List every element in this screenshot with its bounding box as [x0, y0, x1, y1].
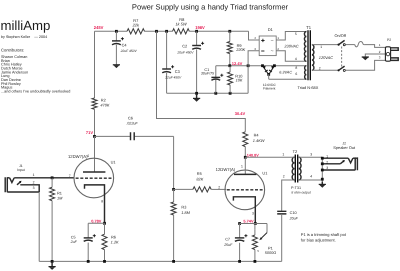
wire R4 to V1b plate node: [244, 147, 246, 158]
svg-text:3: 3: [252, 212, 254, 216]
svg-text:30.4V: 30.4V: [235, 111, 246, 116]
resistor R3: [171, 202, 176, 215]
ground symbol at AC plug: [362, 56, 369, 58]
wire cathode node to C5: [88, 222, 104, 224]
wire J1 sleeve down to ground rail: [38, 192, 40, 261]
wire fuse to plug pin1: [364, 45, 385, 48]
wire R2 to V1a plate node: [94, 109, 96, 136]
svg-text:470K: 470K: [100, 103, 109, 108]
fuse bump: [355, 42, 364, 47]
AC plug P2 body: [385, 47, 390, 61]
node V1b cathode junction dots: [254, 222, 257, 225]
wire filament node stub: [268, 74, 270, 79]
svg-text:4: 4: [310, 175, 312, 179]
svg-text:8: 8: [101, 200, 103, 204]
AC plug prong bottom: [391, 58, 399, 61]
input jack J1 body: [5, 177, 7, 192]
svg-text:22k: 22k: [132, 22, 140, 27]
svg-text:C2: C2: [182, 44, 187, 49]
wire plate node into tube V1a plate: [94, 136, 96, 172]
V1a plate bar: [83, 171, 105, 173]
node C6/R3/R5 junction: [172, 188, 175, 191]
svg-text:1.2K: 1.2K: [111, 239, 119, 244]
switch S1b bottom pole: [338, 69, 340, 71]
switch S1a top pole: [338, 44, 340, 46]
wire B+ rail down to R2: [94, 31, 96, 98]
svg-text:by Stephen Keller — 2004: by Stephen Keller — 2004: [1, 35, 47, 39]
wire T1 pin 6 lead: [269, 78, 307, 80]
signal ground rail: [39, 260, 282, 262]
svg-text:1k 5W: 1k 5W: [175, 21, 188, 26]
J2 ring contact arrow: [322, 163, 340, 165]
svg-text:2: 2: [283, 175, 285, 179]
resistor R1: [50, 187, 55, 201]
resistor R4: [243, 132, 248, 147]
svg-text:3: 3: [310, 153, 312, 157]
svg-text:D1: D1: [268, 27, 274, 32]
filament rectifier diode DB: [269, 66, 274, 75]
wire V1b plate node to T2 pin1: [245, 156, 294, 158]
capacitor C3 branch wire: [166, 31, 168, 93]
wire bridge + output to B+ rail: [249, 31, 260, 40]
svg-text:220K: 220K: [235, 47, 245, 52]
svg-text:P1: P1: [268, 245, 273, 250]
svg-text:P2: P2: [387, 38, 391, 42]
AC plug prong top: [391, 48, 399, 51]
wire C10 bottom to ground rail: [281, 214, 283, 262]
ground symbol below C2: [196, 93, 198, 98]
svg-text:~: ~: [271, 48, 274, 54]
wire R1 top lead: [51, 178, 53, 187]
wire T1 pin1 to switch: [312, 44, 338, 46]
svg-text:1: 1: [320, 45, 322, 49]
svg-text:C3: C3: [175, 69, 180, 74]
node V1b plate junction: [244, 156, 247, 159]
wire switch to plug pin3: [345, 60, 385, 70]
wire R6 top lead: [104, 223, 106, 234]
capacitor C10: [277, 211, 286, 214]
svg-text:140.8V: 140.8V: [247, 153, 260, 157]
svg-text:T1: T1: [306, 25, 312, 30]
wire R3 bottom to ground rail: [173, 215, 175, 261]
capacitor C6 coupling: [95, 135, 174, 137]
svg-text:120VAC: 120VAC: [319, 55, 333, 60]
capacitor C1: [211, 76, 220, 78]
wire T2 pin3 to speaker jack: [299, 156, 323, 158]
svg-text:12.4V: 12.4V: [232, 61, 243, 66]
V1b plate bar: [234, 173, 256, 175]
svg-text:7: 7: [69, 174, 71, 178]
capacitor C5: [84, 237, 93, 239]
resistor R2: [92, 98, 97, 109]
svg-text:3: 3: [33, 186, 35, 190]
svg-text:~: ~: [271, 38, 274, 44]
resistor R9 branch wires: [229, 31, 231, 65]
svg-text:71V: 71V: [86, 130, 93, 135]
svg-text:Speaker Out: Speaker Out: [333, 145, 356, 150]
T1 secondary winding 120VAC: [312, 45, 314, 71]
svg-text:20uF: 20uF: [289, 216, 299, 220]
divider rail 12.4V node: [216, 65, 307, 67]
svg-text:2: 2: [326, 160, 328, 164]
svg-text:On/Off: On/Off: [335, 33, 347, 38]
bridge D1 plus mark: [261, 39, 264, 42]
wire C5 bottom to ground rail: [87, 243, 89, 262]
node 245V rail junction dots: [115, 30, 118, 33]
bridge rectifier D1 body: [259, 36, 276, 56]
wire C5 top lead: [87, 223, 89, 237]
wire R6 bottom to ground rail: [104, 250, 106, 262]
svg-text:1.8M: 1.8M: [181, 210, 190, 215]
svg-text:P-T31: P-T31: [291, 186, 301, 190]
resistor R9: [227, 42, 232, 54]
svg-text:...and others I've undoubtedly: ...and others I've undoubtedly overlooke…: [1, 90, 70, 94]
svg-text:230VAC: 230VAC: [283, 43, 298, 48]
capacitor C7: [235, 237, 244, 239]
J2 pins bus: [321, 158, 323, 181]
wire switch to fuse: [345, 44, 355, 46]
svg-text:for bias adjustment.: for bias adjustment.: [301, 237, 336, 242]
svg-text:6: 6: [295, 72, 297, 76]
svg-text:U1: U1: [262, 170, 267, 175]
svg-text:U1: U1: [111, 159, 116, 164]
T2 secondary winding: [299, 157, 301, 180]
wire P1 bottom to ground rail: [254, 250, 256, 262]
PSU ground rail junction dots: [195, 92, 198, 95]
svg-text:2: 2: [218, 185, 220, 189]
ground rail (PSU 0V bus): [167, 92, 249, 94]
ground rail junction dots: [51, 260, 54, 263]
J2 bus junction dots: [321, 157, 324, 160]
wire T2 pin2 to C10: [282, 180, 295, 211]
svg-text:25uF: 25uF: [223, 243, 233, 247]
wire plug pin2 to safety ground: [365, 54, 385, 57]
svg-text:C4: C4: [122, 43, 128, 48]
wire cathode node run: [240, 223, 267, 225]
svg-text:12DW7(A): 12DW7(A): [68, 154, 88, 159]
svg-text:1.4KW: 1.4KW: [253, 138, 265, 143]
svg-text:1: 1: [33, 173, 35, 177]
main ground symbol: [51, 261, 53, 266]
svg-text:5: 5: [295, 32, 297, 36]
T2 core: [295, 155, 297, 183]
wire grid node to R5: [174, 188, 193, 190]
V1a cathode: [85, 185, 105, 223]
wire R5 to V1b grid: [211, 188, 226, 190]
tube U1 section B envelope: [225, 170, 265, 210]
svg-text:C5: C5: [71, 235, 76, 239]
resistor R8: [173, 29, 190, 34]
svg-text:245V: 245V: [94, 25, 104, 30]
svg-text:Power Supply using a handy Tri: Power Supply using a handy Triad transfo…: [132, 3, 289, 12]
svg-text:198V: 198V: [195, 25, 205, 30]
capacitor C1 branch wires: [215, 66, 217, 94]
svg-text:C10: C10: [290, 211, 297, 215]
svg-text:5000Ω: 5000Ω: [265, 251, 276, 255]
node R1 top junction: [51, 176, 54, 179]
svg-text:6.3VAC: 6.3VAC: [279, 71, 292, 75]
resistor R6: [102, 234, 107, 249]
svg-text:R4: R4: [254, 132, 260, 137]
P1 wiper arm: [266, 224, 268, 233]
svg-text:C6: C6: [128, 116, 133, 121]
svg-text:8: 8: [295, 66, 297, 70]
svg-text:82K: 82K: [196, 176, 203, 181]
svg-text:Input: Input: [17, 168, 25, 172]
wire T1 pin2 to switch: [312, 69, 338, 71]
svg-text:2uF: 2uF: [70, 240, 78, 244]
T1 filament winding 6.3VAC: [305, 66, 307, 80]
resistor R10: [228, 72, 233, 85]
svg-text:1: 1: [241, 165, 243, 169]
T1 primary winding 230VAC: [304, 32, 306, 62]
tube U1 section A envelope: [74, 158, 114, 198]
svg-text:30uF/75: 30uF/75: [201, 72, 214, 76]
capacitor C4 branch wire: [115, 31, 117, 65]
svg-text:1M: 1M: [57, 196, 63, 201]
svg-text:1: 1: [326, 154, 328, 158]
wire cathode node down to P1 top: [254, 224, 256, 230]
wire C7 top lead: [239, 224, 241, 238]
resistor R5: [193, 187, 211, 192]
node V1a plate junction: [93, 135, 96, 138]
svg-text:3: 3: [326, 166, 328, 170]
svg-text:P1 is a trimming shaft pot: P1 is a trimming shaft pot: [301, 232, 347, 237]
J1 ring contact arrow: [17, 182, 21, 185]
capacitor C2: [192, 45, 201, 47]
svg-text:22uF 450V: 22uF 450V: [164, 76, 182, 80]
node V1a cathode junction: [103, 222, 106, 225]
resistor R10 branch wires: [229, 66, 231, 94]
svg-text:Triad N-68X: Triad N-68X: [297, 85, 318, 90]
svg-text:4: 4: [295, 57, 297, 61]
svg-text:5.74V: 5.74V: [243, 219, 254, 224]
wire T2 pin4 to jack ground: [299, 178, 323, 181]
ground symbol below J2: [321, 182, 323, 185]
wire R1 bottom to ground rail: [51, 201, 53, 262]
capacitor C2 branch wire: [196, 31, 198, 93]
svg-text:milliAmp: milliAmp: [1, 18, 51, 33]
switch gang dashed link: [341, 47, 343, 68]
wire bridge AC2 to T1 pin 4: [276, 51, 306, 62]
wire bridge AC1 to T1 pin 5: [276, 32, 306, 41]
wire C7 bottom to ground rail: [239, 243, 241, 262]
T1 core: [308, 30, 310, 80]
filament diode junction dots: [261, 64, 264, 67]
svg-text:0.78V: 0.78V: [91, 218, 102, 223]
svg-text:20uF 450V: 20uF 450V: [176, 51, 194, 55]
svg-text:.022uF: .022uF: [126, 121, 138, 125]
svg-text:6: 6: [87, 154, 89, 158]
12.4V rail junction dots: [228, 64, 231, 67]
svg-text:T2: T2: [293, 149, 298, 154]
speaker jack J2 body: [355, 157, 357, 170]
bridge D1 minus mark: [261, 50, 264, 52]
svg-text:8 ohm output: 8 ohm output: [291, 191, 311, 195]
svg-text:1: 1: [282, 153, 284, 157]
svg-text:2: 2: [33, 180, 35, 184]
V1b cathode: [233, 197, 255, 224]
ground below C4: [113, 64, 120, 66]
wire J1 tip to V1a grid: [14, 177, 74, 179]
wire bridge - output to ground rail: [248, 51, 259, 94]
svg-text:R3: R3: [181, 204, 186, 209]
V1b grid dashed line: [227, 189, 263, 191]
wire V1b plate node into plate: [244, 157, 246, 174]
wire B+ rail (245V node to bridge +): [95, 30, 249, 32]
capacitor C3: [162, 68, 171, 70]
V1a grid dashed line: [76, 177, 113, 179]
svg-text:10K: 10K: [236, 78, 243, 83]
capacitor C4: [112, 40, 121, 42]
resistor R3 top lead: [173, 189, 175, 202]
filament rectifier diode DA: [263, 66, 269, 75]
resistor R7: [127, 29, 145, 34]
wire node to R4 feed (30.4V run): [157, 31, 246, 132]
svg-text:2: 2: [319, 66, 321, 70]
svg-text:22uF 450V: 22uF 450V: [120, 49, 138, 53]
svg-text:C7: C7: [225, 237, 230, 241]
T2 primary winding: [292, 157, 294, 180]
potentiometer P1 element: [252, 235, 257, 250]
svg-text:Filament: Filament: [263, 87, 275, 91]
wire C6 to grid node: [173, 136, 175, 189]
svg-text:Contributors:: Contributors:: [1, 48, 24, 53]
wire J1 ring to sleeve: [20, 185, 39, 192]
P1 top lead: [254, 230, 256, 235]
svg-text:12DW7(A): 12DW7(A): [216, 167, 236, 172]
